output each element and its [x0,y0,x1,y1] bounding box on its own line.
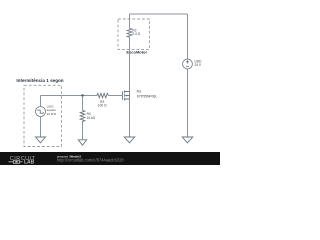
wire R4 down [82,123,84,140]
wire gate horizontal [41,95,98,97]
label EscoMotor [126,49,147,54]
voltage source V1 UGG square [36,107,46,117]
ground mosfet [124,137,135,143]
ground UGG [36,137,46,143]
svg-text:LAB: LAB [24,160,35,166]
svg-text:Intermitência 1 segon: Intermitência 1 segon [16,78,63,83]
transistor M1 NMOS [122,91,129,101]
label R4 10 kohm [87,112,96,120]
ground right [182,137,193,143]
wire mosfet source down [129,99,131,137]
svg-text:STP55NF06L: STP55NF06L [137,95,158,99]
svg-text:10 kΩ: 10 kΩ [87,116,96,120]
label M1 STP55NF06L [137,90,158,99]
label UDD 24 V [195,60,203,67]
wire top horizontal [130,13,188,15]
svg-text:M1: M1 [137,90,142,94]
wire UGG up to gate wire [40,96,42,107]
logo wire glyph and LAB [9,160,35,166]
wire UGG down [40,116,42,137]
node junction gate/R4 [82,94,84,96]
voltage source V2 UDD [183,59,193,69]
footer bar [0,152,220,165]
label UGG square 10 kHz [47,104,57,115]
svg-text:http://circuitlab.com/c/8744aa: http://circuitlab.com/c/8744aadc6328 [57,158,124,163]
svg-text:24 V: 24 V [195,63,202,67]
wire R2 to mosfet drain [129,38,131,92]
wire right vertical lower [187,69,189,137]
wire left vertical from top to R2 [129,14,131,28]
footer title jansquest / Mosfet-2 [56,155,81,159]
wire R3 to gate [109,95,123,97]
svg-text:100 Ω: 100 Ω [98,104,107,108]
footer url [57,158,124,163]
label R2 2.4 ohm [132,29,140,36]
dashed box EscoMotor [118,19,149,49]
dashed box intermittency [24,85,61,146]
ground R4 [78,140,86,146]
resistor R3 [97,93,109,97]
logo CIRCUIT [10,156,36,162]
resistor R4 [80,110,85,123]
svg-text:10 kHz: 10 kHz [47,112,57,116]
wire junction down to R4 [82,96,84,111]
resistor R2 [127,28,132,37]
svg-text:2.4 Ω: 2.4 Ω [132,32,140,36]
wire right vertical upper [187,14,189,59]
label Intermitencia 1 segon [16,78,63,83]
label R3 100 ohm [98,100,107,108]
